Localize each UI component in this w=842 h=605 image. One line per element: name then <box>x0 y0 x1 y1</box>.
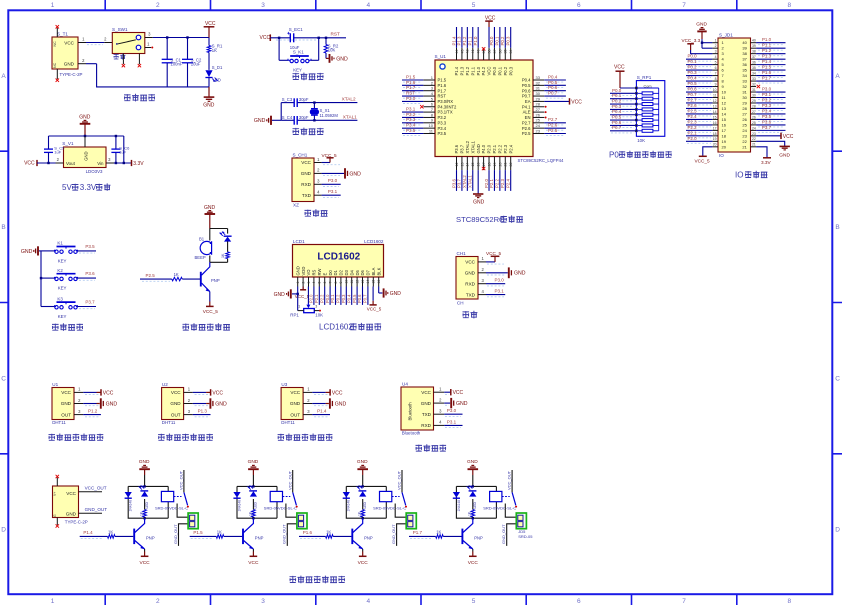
wire net P1.2 top <box>466 27 468 48</box>
svg-text:37: 37 <box>752 55 756 59</box>
svg-text:GND: GND <box>421 401 432 406</box>
svg-text:3: 3 <box>307 282 311 284</box>
svg-text:VCC: VCC <box>614 65 625 71</box>
svg-text:NC: NC <box>53 41 57 47</box>
svg-text:32: 32 <box>536 80 541 85</box>
svg-text:P3.0: P3.0 <box>762 87 772 92</box>
wire net P0.2 pull-up <box>610 103 636 105</box>
pin stub output connector bottom no-connect <box>56 518 58 526</box>
wire net P1.7 <box>402 90 423 92</box>
svg-text:GND: GND <box>203 103 215 109</box>
svg-text:3: 3 <box>315 305 317 309</box>
svg-text:14: 14 <box>366 280 370 284</box>
svg-text:16: 16 <box>477 163 481 167</box>
wire net P1.1 IO right <box>756 47 785 49</box>
resistor element 8 of RP1 <box>642 129 653 132</box>
svg-text:P2.4: P2.4 <box>508 144 513 153</box>
svg-text:8: 8 <box>715 77 717 81</box>
wire VCC rail reset <box>270 37 290 39</box>
node junction XTAL2 <box>313 101 315 103</box>
wire net P3.2 <box>402 116 423 118</box>
svg-text:36: 36 <box>742 62 747 67</box>
svg-text:6: 6 <box>431 102 434 107</box>
no connect pin 6 <box>420 105 423 108</box>
svg-text:D4: D4 <box>349 269 354 275</box>
wire net P1.1 top <box>472 27 474 48</box>
wire net P0.3 IO left <box>686 75 712 77</box>
svg-text:1: 1 <box>296 282 300 284</box>
power port VCC_5 download <box>322 162 330 164</box>
svg-text:15: 15 <box>713 115 717 119</box>
svg-text:P0.3: P0.3 <box>612 104 622 109</box>
svg-text:GND: GND <box>357 459 368 465</box>
no connect P4.2 <box>482 47 485 50</box>
connector S_T1 TYPE-C-2P <box>52 37 78 69</box>
svg-text:7: 7 <box>682 598 686 605</box>
IC S_U1 STC89C52RC_LQFP44 <box>435 60 533 157</box>
svg-text:VCC_5: VCC_5 <box>295 294 310 299</box>
svg-text:26: 26 <box>742 117 747 122</box>
wire net P0.5 <box>544 84 566 86</box>
svg-text:P2.0: P2.0 <box>688 136 698 141</box>
wire pin 23 to VCC <box>756 135 781 137</box>
svg-text:CH: CH <box>457 300 464 305</box>
svg-text:P3.6: P3.6 <box>762 119 772 124</box>
wire VCC to Vout <box>37 162 56 164</box>
wire net P0.0 pull-up <box>610 92 636 94</box>
svg-text:STC89C52RC_LQFP44: STC89C52RC_LQFP44 <box>518 158 564 163</box>
svg-text:P0.3: P0.3 <box>506 36 511 45</box>
svg-text:GND: GND <box>204 205 216 211</box>
module U2 DHT11 <box>162 388 184 420</box>
svg-text:NC: NC <box>53 62 57 68</box>
wire base net alarm <box>140 278 172 280</box>
svg-text:34: 34 <box>752 71 756 75</box>
svg-text:8: 8 <box>431 112 434 117</box>
svg-text:VCC_3.3: VCC_3.3 <box>682 38 701 43</box>
resistor element 5 of RP1 <box>642 113 653 116</box>
svg-text:38: 38 <box>752 50 756 54</box>
svg-text:2: 2 <box>715 44 717 48</box>
svg-text:2: 2 <box>439 397 442 402</box>
wire net P2.1 bottom <box>493 170 495 191</box>
svg-text:VCC_5: VCC_5 <box>486 251 502 256</box>
wire net P0.1 top <box>499 27 501 48</box>
svg-text:OUT: OUT <box>171 412 181 417</box>
module LCD1 LCD1602 <box>293 245 384 278</box>
power port VCC_5 serial <box>486 261 495 263</box>
svg-text:30: 30 <box>742 95 747 100</box>
svg-text:1: 1 <box>298 305 300 309</box>
svg-text:P0.7: P0.7 <box>522 94 531 99</box>
svg-text:28: 28 <box>536 102 541 107</box>
wire Vin to 3.3V <box>114 162 132 164</box>
svg-text:C: C <box>835 375 840 382</box>
wire net XTAL1 bottom <box>472 170 474 191</box>
wire base net P1.6 <box>299 535 326 537</box>
svg-text:1K: 1K <box>436 529 441 534</box>
transistor PNP P1.7 <box>461 529 463 545</box>
svg-text:VCC_5: VCC_5 <box>695 158 711 163</box>
svg-text:24: 24 <box>536 123 541 128</box>
connector S_JD1 IO <box>718 38 751 152</box>
svg-text:P3.4: P3.4 <box>406 123 416 128</box>
svg-text:2: 2 <box>317 168 320 173</box>
pin 3 of U2 <box>184 414 193 416</box>
power port VCC_5 alarm <box>206 305 214 307</box>
capacitor S_C1 100nF <box>166 38 168 60</box>
power port 3.3V IO <box>763 157 771 159</box>
svg-text:XZ: XZ <box>293 202 299 207</box>
svg-text:24: 24 <box>752 126 756 130</box>
svg-text:GND: GND <box>335 401 347 407</box>
svg-text:41: 41 <box>471 50 475 54</box>
wire VCC to RP1 com <box>620 87 636 89</box>
svg-text:7: 7 <box>328 282 332 284</box>
svg-text:P0.5: P0.5 <box>612 115 622 120</box>
svg-text:40: 40 <box>742 40 747 45</box>
svg-text:2: 2 <box>431 80 434 85</box>
svg-text:LCD1602: LCD1602 <box>317 252 360 263</box>
svg-text:VCC_5: VCC_5 <box>203 309 219 314</box>
svg-text:P2.6: P2.6 <box>522 126 531 131</box>
svg-text:P0.0: P0.0 <box>612 88 622 93</box>
capacitor S_C5 1uF <box>48 136 50 149</box>
pin 2 of switch S_SW1 <box>104 42 112 44</box>
svg-text:P3.2: P3.2 <box>762 97 772 102</box>
svg-text:U2: U2 <box>162 382 168 387</box>
svg-text:DHT11: DHT11 <box>162 420 176 425</box>
svg-text:GND_OUT: GND_OUT <box>282 524 287 544</box>
wire key K3 to net <box>78 306 97 308</box>
svg-text:10K: 10K <box>315 312 323 317</box>
no connect pin 32 <box>757 85 760 88</box>
svg-text:VCC_OUT: VCC_OUT <box>179 470 184 490</box>
pin 2 of U2 <box>184 403 193 405</box>
svg-text:33: 33 <box>742 79 747 84</box>
svg-text:34: 34 <box>509 50 513 54</box>
LED indicator P1.5 <box>249 490 257 492</box>
wire net P0.2 LCD <box>340 287 342 305</box>
svg-text:P3.0: P3.0 <box>447 408 457 413</box>
svg-text:P0.1: P0.1 <box>497 66 502 75</box>
svg-text:19: 19 <box>713 137 717 141</box>
wire net P3.4 <box>402 127 423 129</box>
svg-text:GND: GND <box>514 271 526 277</box>
svg-text:GND: GND <box>79 115 91 121</box>
wire net P3.3 IO right <box>756 107 785 109</box>
svg-text:GND_OUT: GND_OUT <box>85 507 108 512</box>
svg-text:9: 9 <box>431 118 434 123</box>
svg-text:P1.1: P1.1 <box>762 43 772 48</box>
svg-text:S_RP1: S_RP1 <box>637 75 652 80</box>
svg-text:8: 8 <box>334 282 338 284</box>
svg-text:1: 1 <box>78 387 81 392</box>
svg-text:18: 18 <box>713 132 717 136</box>
pin 1 of CH1 <box>478 261 486 263</box>
wire LCD VDD pin2 to VCC_5 <box>302 287 304 290</box>
pin 2 of U1 <box>74 403 83 405</box>
svg-text:VCC: VCC <box>66 491 76 496</box>
svg-text:VCC: VCC <box>24 161 35 167</box>
wire GND_OUT relay <box>397 524 408 546</box>
wire net P2.7 <box>544 122 566 124</box>
svg-text:13: 13 <box>460 163 464 167</box>
svg-text:2: 2 <box>78 398 81 403</box>
svg-text:VCC: VCC <box>358 560 369 566</box>
svg-text:VCC: VCC <box>212 390 223 396</box>
svg-text:C: C <box>1 375 6 382</box>
svg-text:16: 16 <box>377 280 381 284</box>
svg-text:1uF: 1uF <box>54 150 61 155</box>
svg-text:P3.2: P3.2 <box>406 112 416 117</box>
svg-text:P3.7: P3.7 <box>460 144 465 153</box>
relay switch lever <box>184 492 188 505</box>
svg-text:7: 7 <box>715 71 717 75</box>
wire net P0.1 IO left <box>686 64 712 66</box>
pin 2 of CH1 <box>478 272 486 274</box>
no connect pin 28 <box>545 106 547 108</box>
svg-text:P2.2: P2.2 <box>319 294 324 303</box>
svg-text:KEY: KEY <box>58 258 67 263</box>
svg-text:IO: IO <box>735 170 743 179</box>
svg-text:VCC: VCC <box>290 390 300 395</box>
wire net P0.7 LCD <box>367 287 369 305</box>
wire net P0.2 IO left <box>686 69 712 71</box>
wire base net P1.5 <box>190 535 217 537</box>
svg-text:S_EC1: S_EC1 <box>289 27 303 32</box>
pin 2 of U4 <box>434 402 445 404</box>
svg-text:P1.3: P1.3 <box>762 54 772 59</box>
svg-text:32: 32 <box>742 84 747 89</box>
svg-text:SRD-05VDC-SL-C: SRD-05VDC-SL-C <box>483 505 516 510</box>
svg-text:11.0592M: 11.0592M <box>320 113 339 118</box>
svg-text:P1.5: P1.5 <box>438 78 447 83</box>
svg-text:22: 22 <box>752 137 756 141</box>
svg-text:29: 29 <box>752 99 756 103</box>
relay switch lever <box>402 492 406 505</box>
wire crystal left vertical <box>280 103 282 121</box>
svg-text:1: 1 <box>481 256 484 261</box>
wire net P0.4 LCD <box>351 287 353 305</box>
svg-text:P1.6: P1.6 <box>303 530 313 535</box>
svg-text:P3.6: P3.6 <box>85 271 95 276</box>
relay contact dashes <box>392 496 400 498</box>
svg-text:D: D <box>1 527 6 534</box>
svg-text:P0: P0 <box>609 150 619 159</box>
svg-text:1K: 1K <box>326 529 331 534</box>
svg-text:D6: D6 <box>360 269 365 275</box>
resistor element 4 of RP1 <box>642 108 653 111</box>
wire GND_OUT relay <box>507 524 518 546</box>
wire net P0.6 pull-up <box>610 124 636 126</box>
wire T1 VCC to switch <box>86 42 104 44</box>
svg-text:21: 21 <box>504 163 508 167</box>
ground GND download <box>322 172 344 174</box>
svg-text:4: 4 <box>431 91 434 96</box>
svg-text:P0.2: P0.2 <box>500 36 505 45</box>
svg-text:U3: U3 <box>281 382 287 387</box>
svg-text:P3.5: P3.5 <box>85 244 95 249</box>
svg-text:P2.7: P2.7 <box>688 97 698 102</box>
svg-text:10: 10 <box>713 88 717 92</box>
wire relay loop <box>346 485 386 487</box>
wire net P2.0 LCD <box>313 287 315 305</box>
svg-text:A: A <box>835 73 840 80</box>
wire net P1.3 U2 <box>193 414 211 416</box>
svg-text:P0.7: P0.7 <box>363 294 368 303</box>
pin 1 of U4 <box>434 391 445 393</box>
svg-text:P2.2: P2.2 <box>497 144 502 153</box>
svg-text:14: 14 <box>722 111 727 116</box>
svg-text:LED: LED <box>254 501 258 508</box>
node junction XTAL1 <box>313 119 315 121</box>
svg-text:1: 1 <box>82 37 85 42</box>
wire net P1.3 top <box>461 27 463 48</box>
key K1 <box>41 250 55 252</box>
title 温湿度检测模块 <box>278 434 333 442</box>
wire net P0.5 LCD <box>356 287 358 305</box>
transistor PNP P1.5 <box>242 529 244 545</box>
svg-text:P2.3: P2.3 <box>688 119 698 124</box>
svg-text:27: 27 <box>752 110 756 114</box>
svg-text:E: E <box>322 273 327 276</box>
svg-text:3: 3 <box>108 157 111 162</box>
power port VCC U3 <box>312 391 325 393</box>
pin 3 of U4 <box>434 413 445 415</box>
svg-text:2: 2 <box>57 157 60 162</box>
wire EA to VCC <box>544 100 569 102</box>
svg-text:P3.3: P3.3 <box>406 117 416 122</box>
svg-text:20: 20 <box>498 163 502 167</box>
svg-text:P0.2: P0.2 <box>503 66 508 75</box>
wire net P0.7 pull-up <box>610 130 636 132</box>
svg-text:16: 16 <box>722 122 727 127</box>
svg-text:P3.4: P3.4 <box>762 108 772 113</box>
svg-text:P3.3: P3.3 <box>762 103 772 108</box>
svg-text:VCC_OUT: VCC_OUT <box>507 470 512 490</box>
resistor element 6 of RP1 <box>642 119 653 122</box>
svg-text:P0.2: P0.2 <box>612 98 622 103</box>
svg-text:XTAL1: XTAL1 <box>343 114 357 119</box>
svg-text:22: 22 <box>509 163 513 167</box>
svg-text:2: 2 <box>82 58 85 63</box>
wire net P3.6 IO right <box>756 124 785 126</box>
svg-text:P3.7: P3.7 <box>85 299 95 304</box>
svg-text:15: 15 <box>372 280 376 284</box>
power port VCC bluetooth <box>444 391 450 393</box>
wire net P1.0 top <box>477 27 479 48</box>
svg-text:VCC: VCC <box>571 99 582 105</box>
pin 2 Vout stub <box>56 162 64 164</box>
potentiometer RP1 10K <box>306 305 310 309</box>
svg-text:26: 26 <box>752 115 756 119</box>
svg-text:TXD: TXD <box>466 292 476 297</box>
wire VCC_OUT relay <box>511 470 513 492</box>
svg-text:K3: K3 <box>57 296 63 301</box>
svg-text:P0.6: P0.6 <box>548 85 558 90</box>
connector terminal block P1.5 <box>297 513 307 529</box>
ground GND bluetooth <box>444 402 450 404</box>
svg-text:P0.2: P0.2 <box>688 65 698 70</box>
svg-text:31: 31 <box>536 86 541 91</box>
svg-text:P3.7: P3.7 <box>457 179 462 188</box>
svg-text:P1.6: P1.6 <box>406 80 416 85</box>
wire net P0.4 pull-up <box>610 114 636 116</box>
svg-text:11: 11 <box>713 93 717 97</box>
power port VCC relay P1.6 <box>362 552 364 557</box>
svg-text:P2.6: P2.6 <box>548 123 558 128</box>
wire VCC_OUT relay <box>401 470 403 492</box>
pin 3 of S_CH1 <box>314 183 322 185</box>
svg-text:39: 39 <box>742 46 747 51</box>
svg-text:VO: VO <box>306 269 311 276</box>
pin 1 of S_SW1 no-connect <box>145 47 151 49</box>
svg-text:3: 3 <box>431 86 434 91</box>
svg-text:19: 19 <box>493 163 497 167</box>
svg-text:3: 3 <box>78 409 81 414</box>
svg-text:2: 2 <box>188 398 191 403</box>
svg-text:KEY: KEY <box>58 314 67 319</box>
pin 1 VCC of S_T1 <box>78 42 86 44</box>
svg-text:4: 4 <box>317 190 320 195</box>
svg-text:P1.5: P1.5 <box>406 74 416 79</box>
wire net P1.2 U1 <box>83 414 101 416</box>
svg-text:P4.2: P4.2 <box>481 66 486 75</box>
svg-text:LDO3V3: LDO3V3 <box>86 169 103 174</box>
svg-text:P0.5: P0.5 <box>352 294 357 303</box>
svg-text:10: 10 <box>722 90 727 95</box>
capacitor S_C6 1uF <box>115 136 117 149</box>
wire key bus vertical <box>40 251 42 307</box>
svg-text:GND: GND <box>66 512 77 517</box>
svg-text:P3.5: P3.5 <box>406 128 416 133</box>
svg-text:B: B <box>835 224 839 231</box>
svg-text:GND: GND <box>456 401 468 407</box>
power port VCC U1 <box>83 391 96 393</box>
svg-text:K2: K2 <box>57 268 63 273</box>
wire VCC top pin <box>488 27 490 48</box>
svg-text:D7: D7 <box>366 269 371 275</box>
svg-text:BLK: BLK <box>376 267 381 275</box>
pin 4 of CH1 <box>478 294 486 296</box>
wire GND_OUT relay <box>287 524 298 546</box>
relay switch lever <box>512 492 516 505</box>
svg-text:VCC: VCC <box>260 35 271 41</box>
connector terminal block P1.7 <box>516 513 526 529</box>
ground GND U1 <box>83 403 96 405</box>
wire GND to pins 1,2 <box>701 39 703 48</box>
resistor 1K LED branch P1.5 <box>252 499 254 510</box>
svg-text:P3.5: P3.5 <box>438 131 447 136</box>
svg-text:RP1: RP1 <box>290 312 299 317</box>
svg-text:1K: 1K <box>174 272 179 277</box>
connector S_CH1 XZ <box>292 158 314 202</box>
svg-text:1uF: 1uF <box>119 150 126 155</box>
ground GND LCD left <box>290 289 292 298</box>
no connect pin 26 <box>545 116 547 118</box>
svg-text:3: 3 <box>715 50 717 54</box>
svg-text:P0.4: P0.4 <box>548 74 558 79</box>
svg-text:1N4148: 1N4148 <box>457 500 461 512</box>
svg-text:4: 4 <box>481 289 484 294</box>
wire crystal bottom row <box>281 119 294 121</box>
svg-text:LED: LED <box>473 501 477 508</box>
svg-text:K1: K1 <box>57 241 63 246</box>
wire net P0.0 LCD <box>329 287 331 305</box>
svg-text:XTAL2: XTAL2 <box>342 97 356 102</box>
svg-text:5: 5 <box>472 598 476 605</box>
